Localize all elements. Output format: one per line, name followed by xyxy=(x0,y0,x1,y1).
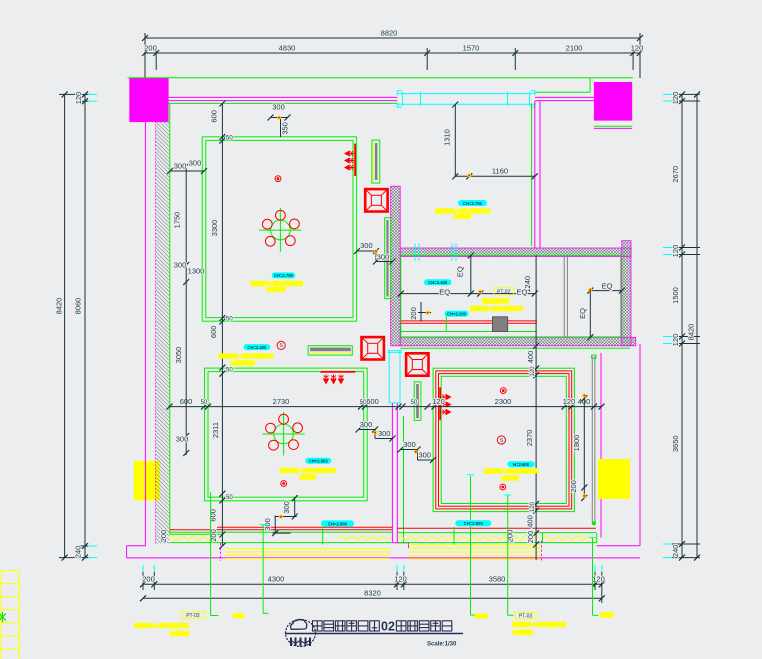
svg-text:240: 240 xyxy=(74,546,83,559)
svg-text:1300: 1300 xyxy=(188,267,205,276)
svg-text:600: 600 xyxy=(209,326,218,339)
left wall hatched band xyxy=(156,103,170,543)
svg-text:EQ: EQ xyxy=(578,308,587,319)
svg-text:H=2.600: H=2.600 xyxy=(513,462,530,467)
svg-text:8420: 8420 xyxy=(55,298,64,315)
svg-text:CH=2.600: CH=2.600 xyxy=(309,459,329,464)
EQ room top wall (hatched) xyxy=(400,248,631,257)
EQ room red soffit double line xyxy=(401,321,537,323)
cyan height label top-right area xyxy=(458,200,487,206)
svg-text:CH=2.600: CH=2.600 xyxy=(328,521,348,526)
svg-text:轻钢龙骨+12厚石膏板吊顶: 轻钢龙骨+12厚石膏板吊顶 xyxy=(218,352,274,360)
svg-text:CH=2.400: CH=2.400 xyxy=(247,345,267,350)
air supply room3 (bar + right arrows) xyxy=(439,387,450,420)
svg-text:50: 50 xyxy=(226,317,233,323)
svg-text:CH=2.400: CH=2.400 xyxy=(428,280,448,285)
svg-text:轻钢龙骨+12厚石膏板吊顶: 轻钢龙骨+12厚石膏板吊顶 xyxy=(250,280,304,288)
smoke detector room1 xyxy=(275,176,281,182)
svg-text:1310: 1310 xyxy=(442,129,451,146)
dimension right inner 120/2670/120/1500/120/3650/240 xyxy=(663,91,700,560)
svg-text:1160: 1160 xyxy=(492,167,508,176)
EQ room interior green outline xyxy=(400,256,630,349)
title circle icon xyxy=(286,619,316,646)
EQ room right EQ dims xyxy=(578,282,625,341)
bottom band: red soffit lines xyxy=(170,527,596,530)
svg-text:200: 200 xyxy=(506,530,515,543)
leader EQ room label xyxy=(445,316,447,332)
svg-text:PT-02: PT-02 xyxy=(497,289,511,295)
left edge ladder (yellow) xyxy=(1,570,20,659)
top wall inner lines left segment xyxy=(169,97,398,103)
svg-text:乳胶漆: 乳胶漆 xyxy=(600,611,614,619)
threshold steps left (yellow lines) xyxy=(225,549,390,559)
smoke detector room3 top xyxy=(500,388,506,394)
svg-text:2300: 2300 xyxy=(495,397,512,406)
svg-text:8320: 8320 xyxy=(364,589,381,598)
svg-text:2311: 2311 xyxy=(211,422,220,438)
svg-text:120: 120 xyxy=(74,92,83,105)
svg-text:轻钢龙骨吊顶: 轻钢龙骨吊顶 xyxy=(482,297,510,305)
room2 right 300/300 stepped dim xyxy=(356,420,396,442)
bottom label PT-03 left xyxy=(181,612,205,619)
column bottom-right (yellow) xyxy=(598,459,630,499)
svg-text:400: 400 xyxy=(526,351,535,364)
svg-text:轻钢龙骨+12厚石膏板吊顶: 轻钢龙骨+12厚石膏板吊顶 xyxy=(134,622,190,630)
leader steps to label xyxy=(260,525,269,614)
svg-text:2370: 2370 xyxy=(525,430,534,447)
title text xyxy=(313,621,452,631)
dimension left outer 8420 xyxy=(55,91,91,560)
cove light vertical (room3 left) xyxy=(414,382,421,421)
svg-text:1500: 1500 xyxy=(671,287,680,304)
bottom outer magenta wall line xyxy=(127,557,640,559)
room3 left 300/300 stepped dim xyxy=(398,440,437,463)
svg-text:CH=2.600: CH=2.600 xyxy=(464,521,484,526)
coffered light 2 xyxy=(362,337,384,359)
top-right 1160 dim xyxy=(455,167,538,180)
EQ room horizontal EQ dim xyxy=(398,288,538,297)
svg-text:300: 300 xyxy=(189,159,202,168)
sensor S corridor xyxy=(277,341,285,349)
top wall inner lines right segment xyxy=(535,92,594,100)
svg-text:120: 120 xyxy=(671,334,680,347)
svg-text:02: 02 xyxy=(381,619,395,633)
bottom band: green lines xyxy=(170,532,597,542)
magenta door-side wall below cyan door xyxy=(392,403,408,548)
bottom-left wall corner xyxy=(127,546,146,558)
svg-text:300: 300 xyxy=(377,253,390,262)
svg-text:白乳胶漆: 白乳胶漆 xyxy=(299,473,317,481)
svg-text:3300: 3300 xyxy=(210,220,219,237)
column top-left xyxy=(129,78,168,122)
leader room2 to PT-03 label xyxy=(211,492,219,616)
svg-text:200: 200 xyxy=(569,480,578,493)
svg-text:300: 300 xyxy=(378,429,391,438)
svg-text:120: 120 xyxy=(432,397,445,406)
svg-text:8420: 8420 xyxy=(687,324,696,341)
EQ room 200 mini dim xyxy=(409,302,431,322)
table with chairs room2 xyxy=(262,412,304,456)
svg-text:300: 300 xyxy=(282,501,291,514)
cyan height label room2 xyxy=(305,458,331,464)
svg-text:120: 120 xyxy=(671,245,680,258)
svg-text:白乳胶漆: 白乳胶漆 xyxy=(501,474,520,482)
EQ room bottom wall (hatched) xyxy=(400,337,636,346)
svg-text:白色乳胶漆: 白色乳胶漆 xyxy=(512,629,534,637)
svg-text:200: 200 xyxy=(159,530,168,543)
green marker at left edge xyxy=(0,612,6,622)
svg-text:50: 50 xyxy=(201,400,208,406)
svg-text:120: 120 xyxy=(394,575,407,584)
svg-text:2670: 2670 xyxy=(671,166,680,183)
svg-text:600: 600 xyxy=(210,110,219,123)
svg-text:CH=2.700: CH=2.700 xyxy=(274,273,294,278)
svg-text:8820: 8820 xyxy=(381,29,398,38)
svg-text:白色乳胶漆: 白色乳胶漆 xyxy=(169,630,190,638)
svg-text:120: 120 xyxy=(671,92,680,105)
threshold steps right (yellow lines) xyxy=(409,545,542,560)
right column bottom edge lines xyxy=(594,125,632,127)
EQ room right wall (hatched) xyxy=(622,241,631,346)
coffered light 1 xyxy=(365,189,387,211)
svg-text:120: 120 xyxy=(530,501,536,512)
svg-text:2730: 2730 xyxy=(273,397,290,406)
svg-text:8060: 8060 xyxy=(74,298,83,315)
svg-text:1750: 1750 xyxy=(173,212,182,229)
room1 ceiling border (green double rect) xyxy=(202,137,356,321)
dimension right outer 8420 xyxy=(687,91,701,560)
cove light thin vertical (corridor) xyxy=(385,218,391,299)
svg-text:400: 400 xyxy=(526,515,535,528)
dimension bottom row 200/4300/120/3580/120 xyxy=(140,565,605,590)
svg-text:EQ: EQ xyxy=(439,288,450,297)
cyan ticks on EQ top wall xyxy=(415,244,456,262)
table with chairs room1 xyxy=(259,208,301,252)
svg-text:4830: 4830 xyxy=(279,44,296,53)
svg-text:白色乳胶漆: 白色乳胶漆 xyxy=(266,286,287,294)
room3 ceiling border (green/red nested rects) xyxy=(433,368,574,511)
svg-text:3050: 3050 xyxy=(174,347,183,364)
room1 left 300/300 labels xyxy=(174,159,202,171)
svg-text:1800: 1800 xyxy=(572,435,581,452)
svg-text:120: 120 xyxy=(592,575,605,584)
room1 right 300/300 stepped dim xyxy=(354,241,396,264)
room2 bottom 300/300 stepped dims xyxy=(263,495,298,536)
svg-text:3580: 3580 xyxy=(489,575,506,584)
svg-text:120: 120 xyxy=(530,366,536,377)
cyan height label room1 xyxy=(272,272,296,278)
svg-text:EQ: EQ xyxy=(517,288,528,297)
EQ room vertical EQ dim xyxy=(456,252,474,296)
cyan door frame below vertical wall xyxy=(388,351,403,403)
cyan height label bottom left xyxy=(321,520,354,526)
leader cyan label left xyxy=(322,527,324,545)
yellow PT-02 box EQ room xyxy=(494,288,513,296)
dimension top row 200/4830/1570/2100/120 xyxy=(142,44,643,71)
svg-text:240: 240 xyxy=(671,545,680,558)
green line right of door wall xyxy=(403,416,405,543)
left vertical dim chain x=186 (1750/300/3050/300) xyxy=(167,163,207,456)
svg-text:50: 50 xyxy=(226,368,233,374)
leader room3 to label xyxy=(467,475,475,615)
svg-text:120: 120 xyxy=(631,44,644,53)
leader room3 bottom to PT label xyxy=(504,495,513,615)
bottom band: yellow insulation zigzag xyxy=(170,535,596,540)
left wall magenta face line xyxy=(144,122,146,546)
vertical dim chain x=222 (600/50/3300/50/600/50/2311/50/600/200) xyxy=(209,101,234,549)
leader cyan label right xyxy=(453,527,455,545)
right side magenta wall line xyxy=(600,353,602,538)
step edges magenta dashed xyxy=(221,541,542,561)
svg-text:轻钢龙骨+12厚石膏板吊顶: 轻钢龙骨+12厚石膏板吊顶 xyxy=(279,467,336,475)
svg-text:300: 300 xyxy=(360,241,373,250)
cove light vertical (room1 right) xyxy=(372,140,380,183)
svg-text:白乳胶漆: 白乳胶漆 xyxy=(453,213,472,221)
svg-text:50: 50 xyxy=(226,495,233,501)
svg-text:轻钢龙骨+12厚石膏板吊顶: 轻钢龙骨+12厚石膏板吊顶 xyxy=(484,467,539,475)
svg-text:200: 200 xyxy=(142,575,155,584)
EQ room gray door frame xyxy=(564,256,567,337)
svg-text:EQ: EQ xyxy=(456,266,465,277)
top-right 1310 dim xyxy=(442,102,458,180)
svg-text:200: 200 xyxy=(526,531,535,544)
dimension bottom total 8320 xyxy=(140,589,605,603)
cyan height label bottom right xyxy=(455,520,491,526)
cyan height label EQ room 1 xyxy=(424,279,451,285)
sensor S room3 xyxy=(497,436,505,444)
svg-text:轻钢龙骨+12厚石膏板吊顶: 轻钢龙骨+12厚石膏板吊顶 xyxy=(512,621,567,629)
svg-text:200: 200 xyxy=(144,44,157,53)
top wall outer green line xyxy=(128,77,634,79)
svg-text:300: 300 xyxy=(418,451,431,460)
svg-text:3650: 3650 xyxy=(671,435,680,452)
svg-text:CH=2.200: CH=2.200 xyxy=(447,311,467,316)
air supply room2 (bar + down arrows) xyxy=(320,371,355,384)
coffered light 3 xyxy=(406,353,428,375)
horizontal dim chain y=406.6 xyxy=(167,397,605,410)
svg-text:300: 300 xyxy=(360,420,373,429)
room1 top mini dim 300/350 xyxy=(268,103,291,138)
vertical wall between rooms (hatched) xyxy=(391,186,401,346)
svg-text:600: 600 xyxy=(366,397,379,406)
svg-text:CH=2.750: CH=2.750 xyxy=(463,201,483,206)
svg-text:600: 600 xyxy=(209,509,218,522)
vertical dim chain x=536 (400/120/2370/120/400/200) xyxy=(523,255,539,560)
bottom label PT-03 middle xyxy=(515,612,536,619)
svg-text:50: 50 xyxy=(226,136,233,142)
bottom-right corner magenta xyxy=(597,344,640,546)
top window (cyan) xyxy=(397,91,535,107)
svg-text:轻钢龙骨+12厚石膏板吊顶: 轻钢龙骨+12厚石膏板吊顶 xyxy=(470,305,524,313)
svg-text:300: 300 xyxy=(174,261,187,270)
air supply room1 (bar + left arrows) xyxy=(345,144,356,176)
svg-text:4300: 4300 xyxy=(268,575,285,584)
smoke detector room2 xyxy=(281,481,287,487)
svg-text:木饰面: 木饰面 xyxy=(231,612,244,620)
EQ room gray equipment box xyxy=(492,317,507,332)
dimension left inner 120/8060/240 xyxy=(74,91,98,560)
cyan height label corridor xyxy=(244,344,271,350)
svg-text:2100: 2100 xyxy=(566,44,583,53)
right side gray frame with green caps xyxy=(592,355,597,525)
svg-text:300: 300 xyxy=(272,103,285,112)
smoke detector room3 bottom xyxy=(500,484,506,490)
svg-text:1570: 1570 xyxy=(463,44,480,53)
svg-text:350: 350 xyxy=(280,122,289,135)
wall stub x=535 (magenta double with green face) xyxy=(532,101,540,248)
svg-text:120: 120 xyxy=(563,397,576,406)
column top-right xyxy=(594,82,632,121)
cyan height label room3 xyxy=(507,461,534,467)
svg-text:300: 300 xyxy=(176,435,189,444)
svg-text:50: 50 xyxy=(411,400,418,406)
column bottom-right yellow (over wall line) xyxy=(598,459,630,499)
cyan height label EQ room 2 xyxy=(445,311,469,317)
svg-text:EQ: EQ xyxy=(602,282,613,291)
svg-text:PT-03: PT-03 xyxy=(186,613,200,619)
right 1800/200 dim xyxy=(569,394,587,501)
svg-text:石材面: 石材面 xyxy=(473,612,488,620)
svg-text:Scale:1/30: Scale:1/30 xyxy=(427,642,457,648)
svg-text:300: 300 xyxy=(403,440,416,449)
leader right band to label xyxy=(589,538,599,616)
svg-text:PT-03: PT-03 xyxy=(519,613,533,619)
cove light horizontal (above room2) xyxy=(308,346,352,355)
room2 ceiling border (green double rect) xyxy=(205,368,368,501)
svg-text:白色乳胶漆面: 白色乳胶漆面 xyxy=(230,359,255,367)
svg-text:200: 200 xyxy=(409,307,418,320)
svg-text:300: 300 xyxy=(174,162,187,171)
dimension top total 8820 xyxy=(142,29,643,91)
title underline xyxy=(285,633,463,635)
column bottom-left (yellow) xyxy=(134,461,160,501)
